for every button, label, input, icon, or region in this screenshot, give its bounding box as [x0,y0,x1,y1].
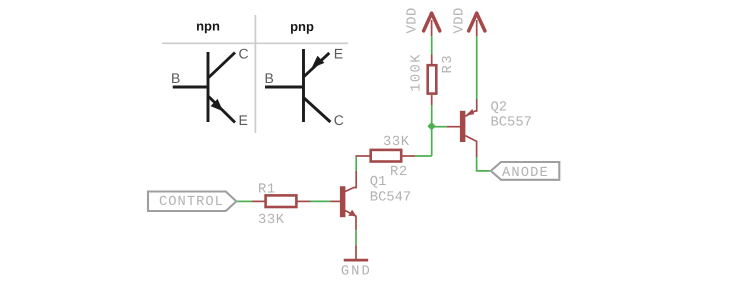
ANODE flag [491,162,560,180]
svg-text:CONTROL: CONTROL [159,195,224,210]
wire R1 to Q1 base [310,200,330,202]
npn transistor symbol [173,52,235,123]
svg-text:B: B [171,70,180,86]
svg-text:GND: GND [341,265,372,280]
transistor Q2 emitter [465,99,476,116]
transistor Q1 base pin [330,200,340,202]
ground pin [355,245,357,259]
resistor R2 body [371,150,402,162]
svg-text:BC557: BC557 [491,116,532,131]
wire CONTROL to R1 [236,200,252,202]
table divider vertical line [254,15,256,133]
svg-text:pnp: pnp [290,19,314,34]
supply symbol VDD 1 [424,13,440,36]
svg-text:npn: npn [196,19,220,34]
svg-text:R3: R3 [441,54,456,74]
resistor R1 body [266,195,297,207]
Q1 emitter arrow [348,210,356,216]
pnp emitter arrow [312,56,325,69]
svg-text:VDD: VDD [453,7,468,33]
svg-text:Q2: Q2 [491,101,508,116]
svg-text:C: C [239,46,249,62]
table divider horizontal line [162,42,348,44]
transistor Q2 collector [465,136,476,157]
transistor Q1 emitter [345,210,356,230]
svg-text:B: B [265,70,274,86]
svg-text:BC547: BC547 [370,190,411,205]
resistor R3 body [428,65,437,93]
wire VDD1 to R3 [431,36,433,54]
svg-text:Q1: Q1 [370,175,387,190]
svg-text:E: E [239,112,248,128]
svg-text:VDD: VDD [406,7,421,33]
svg-text:33K: 33K [258,213,285,228]
resistor R3 pins [431,55,433,106]
wire VDD2 to Q2 emitter [476,36,478,99]
pnp transistor symbol [265,49,330,122]
junction node dot [427,122,435,130]
resistor R2 pins [355,155,415,157]
supply symbol VDD 2 [469,13,485,36]
wire R2 corner to Q1 collector [355,157,357,171]
svg-text:100K: 100K [410,53,425,92]
transistor Q1 collector [345,171,356,192]
wire junction to Q2 base [432,126,447,128]
npn emitter arrow [211,99,223,111]
CONTROL flag [148,192,236,212]
svg-text:E: E [334,46,343,62]
transistor Q1 base bar [340,186,346,217]
svg-text:R2: R2 [390,165,408,180]
svg-text:ANODE: ANODE [502,166,549,181]
wire Q2 collector to ANODE corner [477,157,491,171]
transistor Q2 base bar [460,111,466,142]
transistor Q2 base pin [447,126,460,128]
Q2 emitter arrow [466,109,475,116]
svg-text:33K: 33K [383,135,410,150]
resistor R1 pins [252,200,310,202]
svg-text:C: C [334,112,344,128]
wire R2 corner horizontal [415,155,432,157]
wire R3 to junction and down to R2 corner [431,105,433,156]
ground symbol [344,259,369,262]
svg-text:R1: R1 [258,183,276,198]
wire Q1 emitter to GND [355,230,357,245]
